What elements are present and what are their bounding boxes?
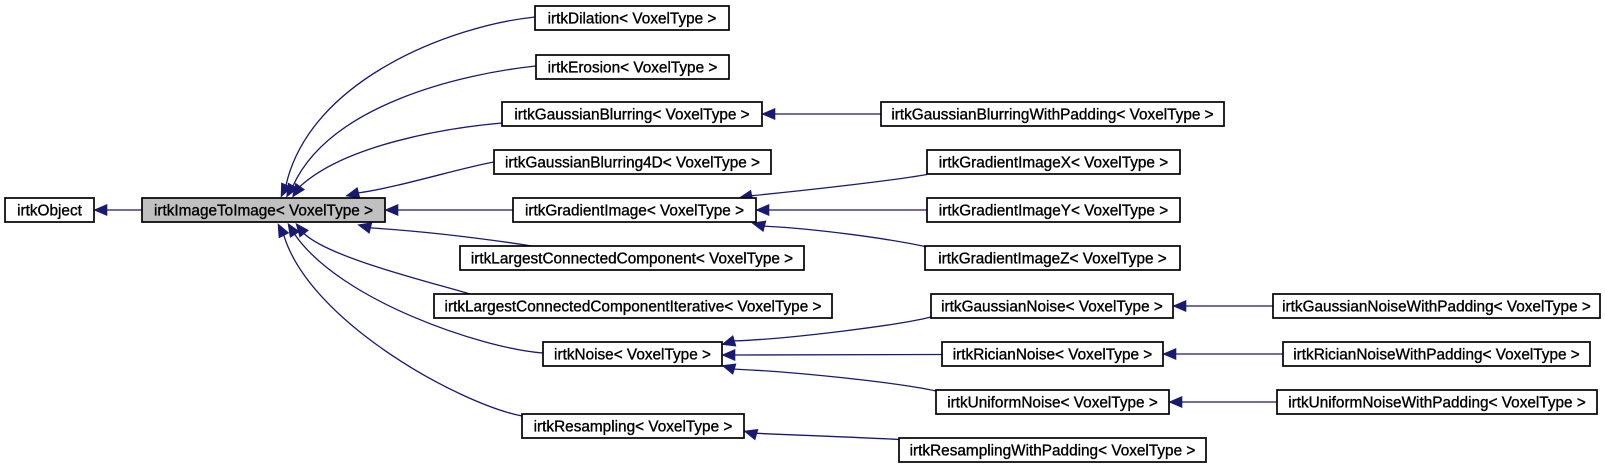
inheritance arrow irtkErosion to irtkImageToImage: [287, 66, 537, 197]
node class irtkLargestConnectedComponent: [460, 246, 804, 270]
inheritance arrow irtkUniformNoiseWithPadding to irtkUniformNoise: [1169, 397, 1277, 408]
node class irtkGaussianBlurringWithPadding: [881, 102, 1224, 126]
svg-text:irtkObject: irtkObject: [17, 203, 82, 220]
svg-text:irtkGaussianBlurring< VoxelTyp: irtkGaussianBlurring< VoxelType >: [514, 107, 749, 124]
node class irtkGaussianNoiseWithPadding: [1273, 294, 1600, 318]
node class irtkUniformNoiseWithPadding: [1277, 390, 1597, 414]
inheritance arrow irtkDilation to irtkImageToImage: [281, 17, 535, 197]
svg-text:irtkErosion< VoxelType >: irtkErosion< VoxelType >: [548, 60, 718, 77]
svg-text:irtkUniformNoiseWithPadding< V: irtkUniformNoiseWithPadding< VoxelType >: [1288, 395, 1586, 412]
svg-text:irtkGaussianNoiseWithPadding<: irtkGaussianNoiseWithPadding< VoxelType …: [1282, 299, 1591, 316]
node class irtkGaussianNoise: [931, 294, 1173, 318]
inheritance arrow irtkResamplingWithPadding to irtkResampling: [744, 429, 899, 440]
svg-text:irtkRicianNoise< VoxelType >: irtkRicianNoise< VoxelType >: [953, 347, 1153, 364]
node class irtkRicianNoise: [942, 342, 1163, 366]
inheritance arrow irtkResampling to irtkImageToImage: [278, 224, 522, 416]
inheritance arrow irtkGradientImageY to irtkGradientImage: [756, 205, 927, 216]
inheritance arrow irtkImageToImage to irtkObject: [94, 205, 142, 216]
svg-text:irtkGradientImage< VoxelType >: irtkGradientImage< VoxelType >: [525, 203, 744, 220]
svg-text:irtkNoise< VoxelType >: irtkNoise< VoxelType >: [554, 347, 711, 364]
svg-text:irtkResampling< VoxelType >: irtkResampling< VoxelType >: [534, 419, 733, 436]
node class irtkResampling: [522, 414, 744, 438]
node class irtkRicianNoiseWithPadding: [1283, 342, 1590, 366]
node class irtkUniformNoise: [936, 390, 1169, 414]
node class irtkObject: [5, 198, 94, 222]
inheritance arrow irtkGaussianNoiseWithPadding to irtkGaussianNoise: [1173, 301, 1273, 312]
svg-text:irtkUniformNoise< VoxelType >: irtkUniformNoise< VoxelType >: [947, 395, 1158, 412]
node class irtkResamplingWithPadding: [899, 438, 1206, 462]
node class irtkNoise: [543, 342, 722, 366]
inheritance arrow irtkGaussianBlurring to irtkImageToImage: [293, 123, 503, 197]
svg-text:irtkLargestConnectedComponentI: irtkLargestConnectedComponentIterative< …: [445, 299, 822, 316]
svg-text:irtkImageToImage< VoxelType >: irtkImageToImage< VoxelType >: [154, 203, 373, 220]
inheritance arrow irtkNoise to irtkImageToImage: [288, 224, 543, 354]
svg-text:irtkGradientImageZ< VoxelType: irtkGradientImageZ< VoxelType >: [938, 251, 1167, 268]
node class irtkGradientImageX: [927, 150, 1180, 174]
svg-text:irtkGaussianNoise< VoxelType >: irtkGaussianNoise< VoxelType >: [941, 299, 1163, 316]
node class irtkErosion: [536, 55, 729, 79]
inheritance arrow irtkGaussianNoise to irtkNoise: [722, 317, 931, 346]
svg-text:irtkGaussianBlurringWithPaddin: irtkGaussianBlurringWithPadding< VoxelTy…: [891, 107, 1213, 124]
inheritance arrow irtkRicianNoiseWithPadding to irtkRicianNoise: [1163, 349, 1283, 360]
svg-text:irtkGradientImageY< VoxelType: irtkGradientImageY< VoxelType >: [939, 203, 1168, 220]
inheritance arrow irtkGradientImageX to irtkGradientImage: [739, 175, 927, 202]
node class irtkImageToImage (current class, highlighted): [142, 198, 385, 222]
inheritance arrow irtkGradientImageZ to irtkGradientImage: [752, 221, 925, 247]
node class irtkGaussianBlurring: [502, 102, 762, 126]
inheritance arrow irtkGaussianBlurring4D to irtkImageToImage: [346, 162, 494, 198]
inheritance arrow irtkLargestConnectedComponentIterative to irtkImageToImage: [296, 224, 470, 295]
node class irtkGradientImageY: [927, 198, 1180, 222]
svg-text:irtkResamplingWithPadding< Vox: irtkResamplingWithPadding< VoxelType >: [910, 443, 1196, 460]
node class irtkGradientImage: [513, 198, 756, 222]
svg-text:irtkDilation< VoxelType >: irtkDilation< VoxelType >: [548, 11, 717, 28]
inheritance arrow irtkRicianNoise to irtkNoise: [722, 350, 942, 361]
svg-text:irtkGaussianBlurring4D< VoxelT: irtkGaussianBlurring4D< VoxelType >: [505, 155, 760, 172]
svg-text:irtkRicianNoiseWithPadding< Vo: irtkRicianNoiseWithPadding< VoxelType >: [1293, 347, 1580, 364]
node class irtkGaussianBlurring4D: [494, 150, 771, 174]
inheritance arrow irtkUniformNoise to irtkNoise: [722, 364, 936, 391]
node class irtkGradientImageZ: [925, 246, 1180, 270]
svg-text:irtkLargestConnectedComponent<: irtkLargestConnectedComponent< VoxelType…: [471, 251, 793, 268]
node class irtkLargestConnectedComponentIterative: [434, 294, 832, 318]
inheritance arrow irtkGaussianBlurringWithPadding to irtkGaussianBlurring: [762, 109, 881, 120]
svg-text:irtkGradientImageX< VoxelType: irtkGradientImageX< VoxelType >: [939, 155, 1168, 172]
inheritance arrow irtkLargestConnectedComponent to irtkImageToImage: [358, 223, 532, 246]
inheritance arrow irtkGradientImage to irtkImageToImage: [385, 205, 513, 216]
node class irtkDilation: [535, 6, 729, 30]
